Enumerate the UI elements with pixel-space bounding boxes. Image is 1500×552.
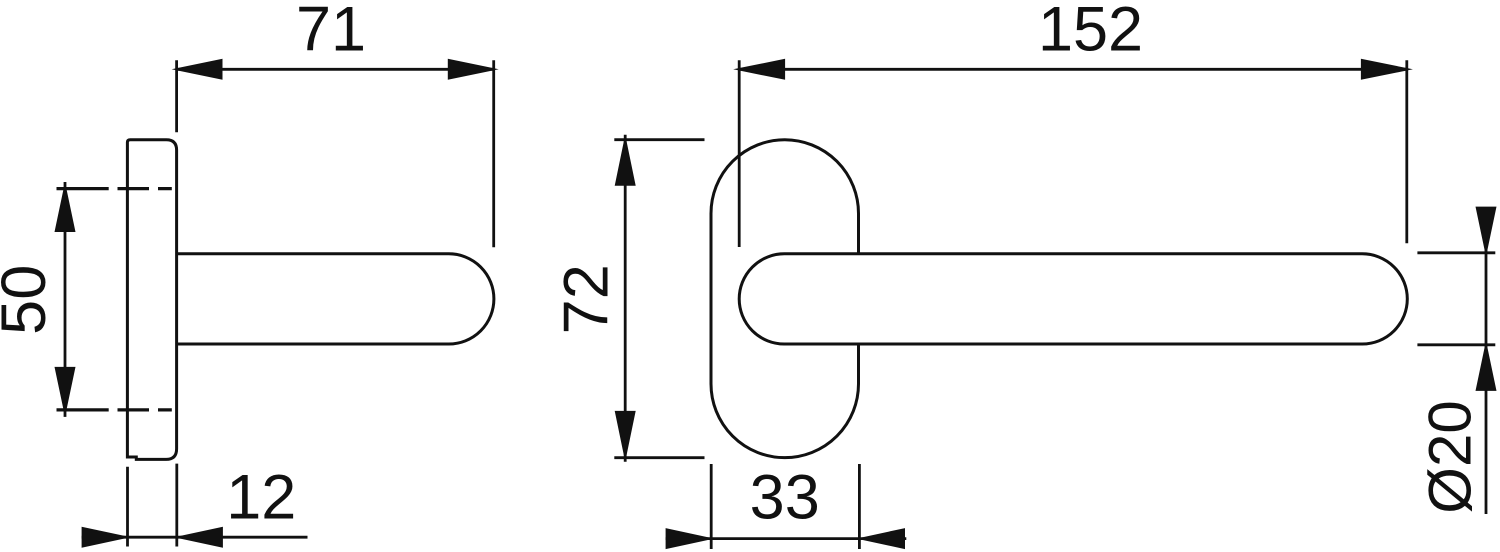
dimension text 50 (rotated) [0, 265, 59, 335]
rosette oval (front view, right) [711, 140, 859, 458]
dimension 71: extension lines [177, 60, 494, 247]
dimension 72: dimension line [624, 135, 627, 462]
svg-text:152: 152 [1038, 0, 1143, 65]
svg-text:33: 33 [750, 463, 820, 533]
svg-text:12: 12 [226, 463, 296, 533]
svg-text:71: 71 [296, 0, 366, 64]
rosette plate (side view, left) [127, 140, 176, 460]
dimension Ø20: dimension line [1485, 207, 1488, 514]
lever handle (front view, right) [739, 254, 1407, 344]
center line upper (dashed) [57, 187, 172, 190]
lever handle (side view, left) [177, 254, 494, 344]
dimension text 72 (rotated) [551, 264, 621, 334]
dimension Ø20: arrowheads [1476, 207, 1497, 391]
dimension 33: arrowheads [666, 528, 905, 549]
dimension 72: arrowheads [615, 135, 636, 462]
dimension 71: arrowheads [172, 59, 499, 80]
svg-text:Ø20: Ø20 [1417, 400, 1484, 513]
dimension 152: arrowheads [733, 59, 1413, 80]
svg-text:72: 72 [551, 264, 621, 334]
dimension Ø20: extension lines [1417, 253, 1495, 345]
dimension text 71 [296, 0, 366, 64]
dimension 50: dimension line [64, 182, 67, 417]
center line lower (dashed) [57, 408, 172, 411]
dimension text 12 [226, 463, 296, 533]
dimension 71: dimension line [177, 68, 494, 71]
dimension 12: dimension line [82, 536, 308, 539]
dimension 152: extension lines [739, 60, 1407, 247]
dimension 12: arrowheads [82, 527, 223, 548]
dimension 72: extension lines [614, 140, 704, 458]
dimension 33: extension lines [711, 464, 859, 549]
dimension text 152 [1038, 0, 1143, 65]
dimension text Ø20 (rotated) [1417, 400, 1484, 513]
svg-text:50: 50 [0, 265, 59, 335]
dimension 33: dimension line [666, 537, 907, 540]
dimension 50: arrowheads [55, 182, 76, 417]
dimension 12: extension lines [128, 464, 177, 547]
dimension 152: dimension line [739, 68, 1407, 71]
dimension text 33 [750, 463, 820, 533]
